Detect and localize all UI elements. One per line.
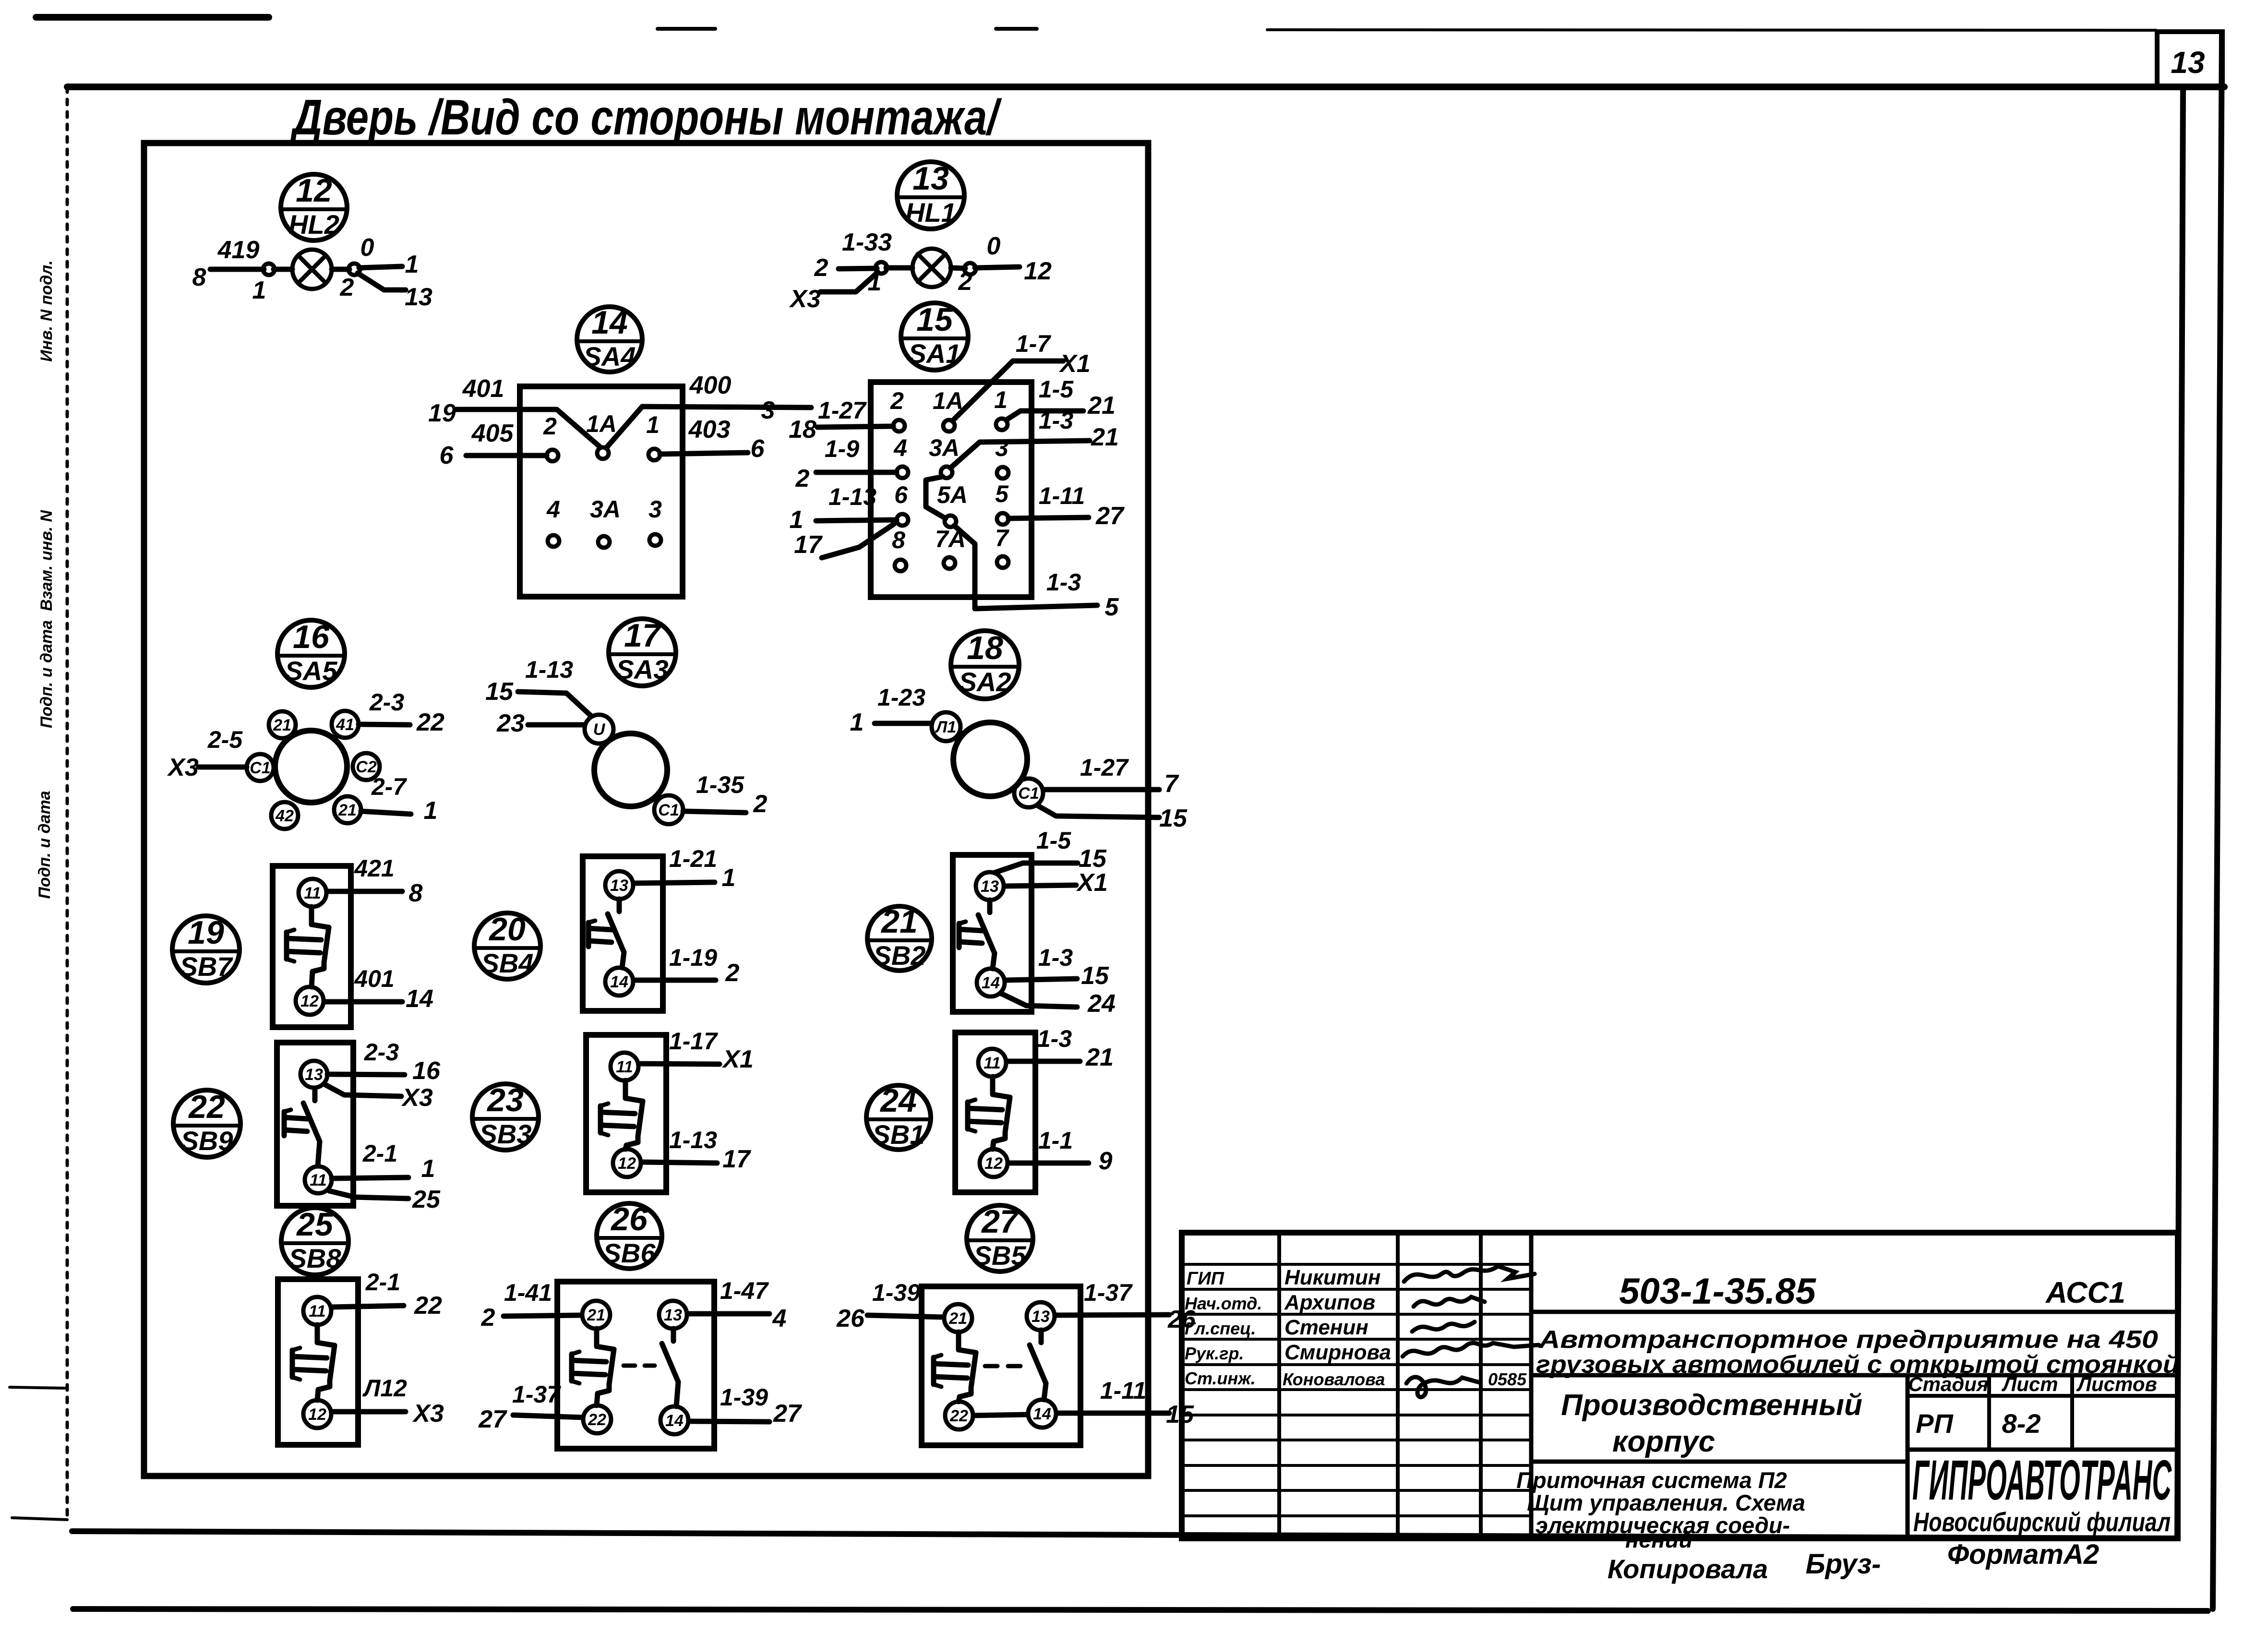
contact 1 of SA4 [648, 449, 660, 460]
tag 14/SA4 [577, 304, 642, 372]
wire 2-5 to X3 [199, 765, 247, 770]
svg-text:9: 9 [1099, 1147, 1113, 1175]
stage header [1908, 1373, 2157, 1395]
contact 1A of SA4 [597, 447, 609, 459]
svg-text:Щит управления. Схема: Щит управления. Схема [1527, 1490, 1805, 1515]
svg-text:1-11: 1-11 [1100, 1377, 1146, 1404]
svg-text:23: 23 [496, 709, 525, 737]
svg-text:5: 5 [1105, 593, 1119, 621]
button SB5 body [922, 1286, 1080, 1445]
svg-text:21: 21 [880, 903, 918, 940]
SA5 lug left [247, 754, 274, 781]
svg-text:Инв. N подл.: Инв. N подл. [37, 260, 56, 362]
SB4 contact [617, 899, 622, 912]
labels HL2 [192, 234, 432, 311]
svg-text:Листов: Листов [2076, 1373, 2157, 1395]
wire 401 node 14 [324, 999, 402, 1005]
svg-text:16: 16 [293, 619, 330, 655]
svg-text:АСС1: АСС1 [2045, 1276, 2125, 1309]
border frame top dashes [36, 14, 269, 21]
svg-text:X1: X1 [1076, 869, 1108, 897]
svg-text:7: 7 [995, 525, 1009, 552]
wire 1-37 node 26 [1055, 1315, 1169, 1315]
svg-text:1-37: 1-37 [1084, 1279, 1133, 1306]
svg-text:Архипов: Архипов [1284, 1291, 1375, 1314]
svg-text:2: 2 [814, 254, 828, 282]
svg-text:1: 1 [405, 251, 419, 278]
svg-text:SA2: SA2 [959, 667, 1011, 697]
tag 27/SB5 [967, 1203, 1033, 1272]
svg-text:24: 24 [879, 1082, 917, 1119]
svg-text:SB3: SB3 [480, 1119, 532, 1149]
left perforation dotted border [66, 87, 69, 1519]
tag 13/HL1 [897, 160, 964, 229]
tag 20/SB4 [474, 911, 540, 979]
svg-text:6: 6 [751, 435, 765, 463]
SB6 left contact [594, 1329, 600, 1346]
button SB6 body [557, 1282, 714, 1449]
svg-text:SA4: SA4 [584, 341, 636, 372]
svg-text:1: 1 [790, 506, 804, 534]
contacts 4, 3A, 3 of SA4 [548, 534, 661, 548]
wire branch to X3 [820, 272, 878, 292]
SB6 terminal 14 [660, 1406, 688, 1434]
svg-text:Приточная система П2: Приточная система П2 [1516, 1467, 1787, 1493]
svg-text:14: 14 [1033, 1405, 1051, 1423]
sheet number box [2157, 32, 2222, 88]
svg-text:18: 18 [789, 416, 816, 444]
svg-text:1-3: 1-3 [1037, 1025, 1072, 1052]
wire 23 to U [528, 722, 585, 728]
svg-text:С1: С1 [658, 801, 679, 819]
tag 26/SB6 [597, 1201, 662, 1269]
svg-text:14: 14 [982, 974, 1000, 992]
svg-text:401: 401 [462, 375, 504, 403]
svg-text:2: 2 [543, 413, 557, 440]
main top border [67, 84, 2224, 90]
SA2 lug C1 [1014, 779, 1043, 807]
svg-text:SA5: SA5 [285, 656, 338, 686]
svg-text:Л12: Л12 [362, 1375, 407, 1402]
tag 15/SA1 [901, 301, 968, 370]
SB2 terminal 13 [976, 872, 1004, 900]
wire 1-37 node 27 into SB6 [513, 1415, 583, 1417]
svg-text:1-5: 1-5 [1039, 376, 1074, 403]
wire 1-3 node 21 [1007, 1059, 1080, 1064]
svg-text:42: 42 [275, 807, 294, 825]
svg-text:27: 27 [1095, 502, 1125, 530]
SB5 left contact [956, 1332, 961, 1350]
svg-text:13: 13 [610, 876, 628, 895]
svg-text:ГИПРОАВТОТРАНС: ГИПРОАВТОТРАНС [1912, 1449, 2172, 1512]
svg-text:1: 1 [994, 386, 1008, 413]
SB6 terminal 22 [583, 1405, 611, 1433]
contact 2 of SA4 [547, 450, 558, 461]
svg-text:400: 400 [689, 372, 732, 399]
wire 1-9 node 2 [816, 470, 897, 475]
svg-text:8: 8 [409, 879, 423, 907]
button SB1 body [955, 1032, 1035, 1192]
svg-text:12: 12 [296, 172, 332, 209]
svg-text:1-3: 1-3 [1046, 569, 1081, 596]
svg-text:1-17: 1-17 [669, 1028, 718, 1055]
svg-text:15: 15 [485, 678, 514, 706]
svg-text:X1: X1 [1058, 350, 1091, 378]
wire 1-41 node 2 into SB6 [504, 1315, 582, 1316]
button SB2 body [953, 855, 1032, 1012]
svg-text:12: 12 [300, 992, 319, 1010]
svg-text:1: 1 [722, 864, 736, 892]
svg-text:1: 1 [868, 268, 882, 296]
SB9 contact [312, 1088, 318, 1101]
svg-text:2: 2 [958, 268, 972, 296]
svg-text:HL1: HL1 [905, 197, 956, 228]
svg-text:1-47: 1-47 [720, 1277, 769, 1304]
SB1 contact [990, 1077, 996, 1094]
svg-text:Бруз-: Бруз- [1806, 1548, 1881, 1580]
signature table texts [1185, 1266, 1527, 1389]
wire to X3 [325, 1085, 401, 1096]
svg-text:С1: С1 [1018, 784, 1039, 803]
SA1 pins row1 [890, 386, 1008, 432]
SB6 right contact [671, 1329, 676, 1341]
svg-text:27: 27 [478, 1405, 507, 1433]
svg-text:Рук.гр.: Рук.гр. [1185, 1344, 1244, 1363]
svg-text:1: 1 [850, 708, 864, 736]
svg-text:8: 8 [192, 264, 206, 291]
SB7 terminal 11 [299, 879, 326, 907]
svg-text:Гл.спец.: Гл.спец. [1185, 1319, 1256, 1338]
tag 24/SB1 [866, 1082, 931, 1150]
SB5 terminal 21 [944, 1304, 972, 1332]
wire 1-13 node 15 [518, 692, 591, 716]
SB5 terminal 14 [1028, 1400, 1056, 1428]
right outer border [2213, 33, 2222, 1609]
wire lamp to terminal 2 [332, 267, 349, 272]
svg-text:13: 13 [664, 1306, 682, 1324]
svg-text:1-39: 1-39 [720, 1384, 768, 1411]
svg-text:2-1: 2-1 [362, 1140, 397, 1167]
svg-text:1А: 1А [586, 410, 617, 437]
SB9 terminal 11 [305, 1166, 332, 1193]
svg-text:0: 0 [987, 232, 1001, 260]
tag 25/SB8 [281, 1206, 348, 1275]
SB3 terminal 12 [613, 1149, 641, 1177]
svg-text:22: 22 [416, 708, 444, 736]
signatures scribbles [1403, 1266, 1539, 1397]
wire 1-5 node 21 [1006, 411, 1083, 420]
wire 1-7 to X1 [952, 361, 1063, 421]
svg-text:1: 1 [252, 276, 266, 304]
svg-text:1: 1 [424, 797, 438, 825]
wire 2-1 node 22 [332, 1306, 404, 1307]
svg-text:Производственный: Производственный [1561, 1389, 1862, 1422]
wire branch to node 13 [358, 273, 406, 290]
svg-text:20: 20 [488, 911, 526, 948]
svg-text:21: 21 [948, 1309, 967, 1328]
svg-text:25: 25 [296, 1206, 334, 1243]
svg-text:17: 17 [722, 1145, 751, 1173]
svg-text:13: 13 [305, 1066, 323, 1084]
svg-text:1-27: 1-27 [818, 397, 867, 424]
button SB7 body [273, 866, 351, 1027]
tag 12/HL2 [281, 172, 347, 240]
signature table verticals [1279, 1233, 1531, 1538]
SB4 terminal 13 [605, 871, 633, 899]
SB6 link dashes [624, 1364, 655, 1368]
svg-text:1-39: 1-39 [872, 1279, 920, 1306]
tag 17/SA3 [609, 617, 676, 686]
svg-text:SB5: SB5 [974, 1240, 1027, 1271]
svg-text:X3: X3 [401, 1084, 433, 1112]
SA1 pins row3 [894, 480, 1009, 527]
wire node 17 diagonal [822, 524, 894, 558]
SB4 terminal 14 [605, 968, 633, 996]
svg-text:1-11: 1-11 [1039, 482, 1085, 509]
svg-text:Коновалова: Коновалова [1283, 1369, 1385, 1389]
wire 3A to 5A [926, 477, 946, 518]
wire 405 to node 6 [466, 453, 547, 458]
svg-text:РП: РП [1916, 1408, 1954, 1439]
svg-text:19: 19 [188, 914, 224, 951]
SB8 terminal 12 [303, 1400, 331, 1428]
wire 1-11 node 15 [1056, 1411, 1169, 1416]
SB3 terminal 11 [611, 1053, 638, 1080]
svg-text:1: 1 [421, 1155, 435, 1183]
svg-text:16: 16 [412, 1057, 441, 1085]
svg-text:11: 11 [984, 1054, 1000, 1072]
svg-text:1-21: 1-21 [669, 845, 717, 872]
switch SA1 body [871, 382, 1032, 597]
wire 2-3 node 16 [327, 1074, 405, 1075]
svg-text:5: 5 [995, 480, 1009, 507]
svg-text:5А: 5А [937, 481, 968, 508]
svg-text:1-1: 1-1 [1038, 1127, 1073, 1154]
svg-text:2-5: 2-5 [207, 726, 243, 753]
svg-text:18: 18 [967, 630, 1003, 666]
svg-text:15: 15 [916, 301, 953, 338]
svg-text:2-3: 2-3 [369, 689, 404, 716]
svg-text:13: 13 [912, 160, 949, 197]
sheet name [1516, 1467, 1805, 1552]
svg-text:23: 23 [486, 1082, 524, 1118]
svg-text:Ст.инж.: Ст.инж. [1185, 1368, 1256, 1388]
svg-text:Л1: Л1 [935, 718, 956, 736]
wire 1-17 to X1 [639, 1064, 720, 1064]
SB8 contact [315, 1325, 320, 1343]
wire 1-11 node 27 [1008, 517, 1089, 518]
svg-text:SB6: SB6 [603, 1238, 656, 1268]
SB2 contact [987, 900, 993, 912]
svg-text:3А: 3А [929, 434, 960, 461]
svg-text:8-2: 8-2 [2002, 1408, 2041, 1439]
svg-text:1-13: 1-13 [525, 656, 573, 683]
SB7 terminal 12 [296, 987, 324, 1015]
tag 22/SB9 [173, 1089, 240, 1157]
svg-text:401: 401 [354, 965, 394, 992]
svg-text:Дверь /Вид со стороны монтажа/: Дверь /Вид со стороны монтажа/ [289, 90, 1002, 145]
svg-text:22: 22 [949, 1407, 968, 1425]
svg-text:25: 25 [412, 1186, 441, 1213]
svg-text:11: 11 [304, 884, 321, 902]
svg-text:1-9: 1-9 [825, 435, 859, 462]
SA2 lug L1 [932, 712, 960, 741]
svg-text:27: 27 [981, 1203, 1020, 1240]
wire 1-1 node 9 [1008, 1161, 1089, 1166]
svg-text:ГИП: ГИП [1187, 1269, 1224, 1289]
svg-text:21: 21 [587, 1306, 605, 1324]
SB3 contact [623, 1080, 628, 1098]
svg-text:14: 14 [406, 985, 433, 1013]
svg-text:нений: нений [1625, 1527, 1692, 1552]
wire 403 to node 6 [660, 453, 748, 454]
svg-text:HL2: HL2 [288, 209, 339, 240]
svg-text:SB8: SB8 [289, 1243, 342, 1273]
svg-text:1А: 1А [933, 387, 963, 414]
wire 1-33 to HL1 [839, 268, 877, 269]
svg-text:12: 12 [618, 1154, 636, 1173]
wire 1-3 node 21 [950, 441, 1090, 468]
svg-text:26: 26 [836, 1305, 865, 1332]
svg-text:41: 41 [336, 716, 354, 734]
svg-text:0: 0 [360, 234, 374, 262]
svg-text:корпус: корпус [1612, 1425, 1715, 1458]
SB7 contact [309, 907, 314, 924]
svg-text:26: 26 [610, 1201, 648, 1237]
svg-text:U: U [593, 720, 606, 739]
svg-text:13: 13 [981, 877, 999, 896]
tag 16/SA5 [277, 619, 345, 687]
svg-text:4: 4 [546, 496, 560, 523]
wire 1-27 node 18 [817, 426, 893, 427]
SA5 lug top-left [269, 711, 296, 738]
wire 1-13 node 17 [641, 1162, 717, 1163]
SA5 lug bottom-right [334, 796, 361, 823]
wire 1-35 node 2 [683, 811, 746, 813]
wire 1-47 node 4 [687, 1311, 769, 1317]
svg-text:2: 2 [890, 387, 904, 414]
svg-text:22: 22 [588, 1411, 606, 1429]
SB8 terminal 11 [303, 1297, 331, 1325]
svg-text:8: 8 [892, 527, 905, 553]
svg-text:3: 3 [995, 434, 1008, 461]
terminal 2 of HL1 [964, 263, 976, 275]
svg-text:403: 403 [688, 416, 731, 444]
wire 1-13 node 1 [816, 520, 897, 521]
svg-text:14: 14 [610, 973, 628, 991]
svg-text:3: 3 [761, 396, 775, 424]
SB2 terminal 14 [977, 969, 1005, 996]
button SB3 body [586, 1035, 666, 1192]
svg-text:Новосибирский филиал: Новосибирский филиал [1913, 1507, 2171, 1537]
door outline (panel) [144, 143, 1148, 1476]
svg-text:X1: X1 [721, 1045, 754, 1073]
svg-text:SA1: SA1 [909, 338, 961, 369]
title block dividers [1531, 1312, 2178, 1538]
svg-text:2-3: 2-3 [364, 1039, 399, 1066]
svg-text:421: 421 [354, 855, 394, 882]
svg-text:21: 21 [1085, 1044, 1114, 1071]
svg-text:2-7: 2-7 [371, 773, 407, 800]
svg-text:SB9: SB9 [181, 1126, 233, 1156]
wire to node 25 [329, 1191, 408, 1199]
svg-text:1-3: 1-3 [1039, 407, 1073, 434]
svg-text:15: 15 [1081, 962, 1109, 990]
SB9 terminal 13 [300, 1061, 327, 1088]
terminal 1 of HL2 [263, 264, 275, 275]
SA5 lug bottom-left [271, 802, 298, 829]
SB5 right contact [1039, 1330, 1044, 1343]
wire L12 to X3 [332, 1409, 406, 1415]
svg-text:1-19: 1-19 [669, 944, 717, 971]
svg-text:12: 12 [984, 1154, 1003, 1173]
wire 2-3 node 22 [359, 724, 410, 725]
wire 1-19 node 2 [634, 978, 716, 983]
svg-text:11: 11 [310, 1171, 326, 1189]
svg-text:3А: 3А [590, 496, 621, 523]
svg-text:22: 22 [188, 1089, 225, 1125]
svg-text:11: 11 [616, 1058, 633, 1076]
svg-text:21: 21 [273, 716, 291, 734]
svg-text:X3: X3 [167, 754, 199, 781]
svg-text:Стадия: Стадия [1908, 1373, 1988, 1395]
svg-text:13: 13 [405, 283, 432, 311]
svg-text:405: 405 [471, 420, 514, 447]
svg-text:Подп. и дата: Подп. и дата [36, 791, 54, 899]
svg-text:17: 17 [794, 531, 823, 559]
svg-text:12: 12 [308, 1405, 326, 1424]
wire 19/401 into SA4 [456, 409, 600, 447]
svg-text:1-3: 1-3 [1038, 944, 1073, 971]
svg-text:SB1: SB1 [873, 1119, 925, 1150]
svg-text:SB7: SB7 [180, 951, 234, 982]
svg-text:419: 419 [217, 236, 260, 264]
svg-text:11: 11 [309, 1302, 325, 1320]
svg-text:2: 2 [753, 790, 768, 818]
wire 1-39 node 27 [689, 1421, 769, 1422]
rotary switch SA2 body [953, 722, 1027, 796]
svg-text:4: 4 [893, 434, 907, 461]
svg-text:3: 3 [648, 496, 662, 523]
SB5 link dashes [985, 1364, 1021, 1368]
lamp HL2 [292, 250, 332, 289]
svg-text:1: 1 [646, 411, 660, 438]
wire 1-21 node 1 [634, 882, 715, 883]
wire 2-7 node 1 [361, 811, 411, 814]
svg-text:0585: 0585 [1488, 1369, 1527, 1389]
button SB8 body [278, 1279, 358, 1445]
svg-text:1-13: 1-13 [669, 1127, 717, 1153]
SA5 lug top-right [332, 711, 359, 738]
SB5 terminal 13 [1027, 1302, 1055, 1330]
svg-text:SB4: SB4 [481, 948, 534, 978]
bottom inner border [72, 1531, 2177, 1538]
svg-text:503-1-35.85: 503-1-35.85 [1619, 1271, 1817, 1312]
svg-text:12: 12 [1024, 257, 1052, 285]
svg-text:17: 17 [624, 617, 662, 654]
title block frame [1182, 1233, 2178, 1538]
wire 1-5 node 15 [995, 863, 1078, 873]
wire 0 to node 12 [975, 267, 1020, 268]
wire 1-27 node 7 [1044, 787, 1159, 792]
SA1 pins row4 [892, 525, 1009, 571]
svg-text:14: 14 [665, 1412, 684, 1430]
SB6 terminal 21 [582, 1301, 610, 1329]
wire to node 15 [1038, 806, 1159, 817]
svg-text:2: 2 [340, 274, 354, 301]
labels SA4 [428, 372, 775, 523]
svg-text:Стенин: Стенин [1284, 1316, 1368, 1339]
